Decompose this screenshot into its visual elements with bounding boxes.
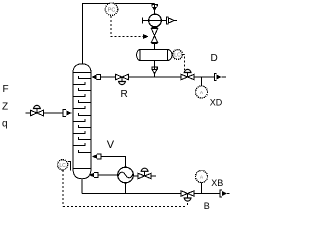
wire: feed line: [26, 112, 64, 114]
reflux drum: [137, 50, 172, 61]
column trays: [73, 76, 91, 153]
svg-text:XB: XB: [211, 178, 223, 188]
arrow: vapor flow into condenser: [152, 4, 157, 11]
arrow: bottoms outlet B: [220, 190, 230, 197]
controller LC (drum level): [173, 50, 183, 60]
analyzer XD: [196, 86, 208, 98]
arrow: reflux into column: [92, 74, 101, 79]
svg-text:PC: PC: [108, 8, 116, 14]
wire: overhead vapor line from column top to condenser: [83, 4, 155, 65]
wire: branch to analyzer XB: [201, 183, 203, 194]
svg-text:XD: XD: [210, 98, 223, 108]
column C1 shell: [73, 64, 91, 179]
wire: drum outlet down to junction: [154, 60, 156, 77]
wire: LC signal (dashed) to bottoms valve: [63, 170, 188, 207]
arrow: coolant outlet: [167, 17, 177, 24]
svg-text:q: q: [2, 118, 8, 129]
controller PC: [105, 3, 117, 15]
wire: reboiler liquid return to column: [98, 174, 118, 176]
valve F (feed valve): [30, 105, 43, 116]
svg-text:LC: LC: [59, 163, 66, 169]
valve D (distillate valve): [181, 69, 194, 80]
svg-text:B: B: [204, 201, 210, 211]
valve R (reflux valve): [115, 74, 128, 85]
arrow: liquid down from drum: [152, 67, 157, 74]
arrow: vapor into column: [92, 154, 101, 159]
arrow: liquid return into column base: [89, 172, 98, 177]
svg-text:R: R: [121, 89, 128, 100]
wire: coolant line through condenser: [143, 18, 167, 24]
wire: PC signal (dashed) to pressure valve: [111, 16, 149, 39]
wire: branch to analyzer XD: [201, 77, 203, 86]
svg-text:V: V: [107, 139, 115, 151]
wire: boilup vapor line into column: [101, 157, 126, 168]
svg-text:D: D: [211, 53, 218, 64]
valve: condenser pressure valve (vertical): [151, 28, 157, 44]
wire: condenser vertical line: [154, 4, 156, 50]
analyzer XB: [196, 171, 208, 183]
valve B (bottoms valve): [181, 190, 194, 201]
svg-text:Z: Z: [2, 102, 8, 113]
condenser U2 (cooler circle): [149, 14, 162, 27]
arrow: feed into column: [63, 110, 72, 117]
arrow: distillate outlet D: [215, 74, 226, 81]
svg-text:F: F: [3, 84, 9, 95]
svg-text:LC: LC: [174, 53, 181, 59]
wire: reflux / distillate header: [101, 76, 215, 78]
wire: LC signal (dashed) to distillate valve: [183, 55, 185, 70]
controller LC (column base level): [58, 160, 71, 171]
wire: column bottoms line: [82, 179, 220, 194]
reboiler U3 (heat exchanger): [118, 167, 134, 183]
valve V (heat input valve): [133, 168, 156, 179]
